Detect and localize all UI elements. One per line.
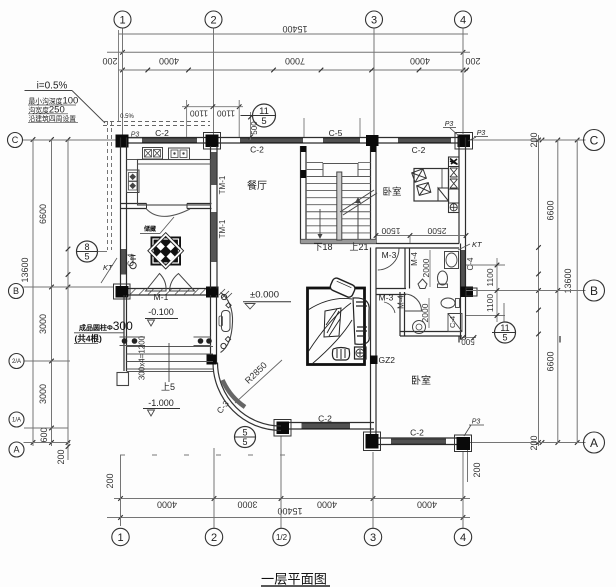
TM-1 door panel lower: [211, 212, 217, 262]
porch balustrade right: [194, 336, 212, 338]
right dim 200 bottom: [529, 435, 539, 450]
svg-text:13600: 13600: [563, 268, 573, 293]
grid bubble 1/2 bottom: [273, 528, 290, 545]
window C-2 bottom living: [302, 424, 351, 429]
grid bubble B right: [584, 280, 605, 301]
svg-text:1100: 1100: [485, 268, 495, 287]
bottom extension line grid2: [213, 448, 215, 528]
porch balustrade left: [120, 336, 146, 338]
bed quilt roll right: [353, 298, 369, 344]
top dim text 200 left: [102, 56, 117, 66]
svg-text:下18: 下18: [313, 242, 332, 252]
bottom dim text 4000 right: [417, 500, 437, 510]
svg-text:2500: 2500: [427, 226, 446, 236]
bedroom internal dim line: [376, 235, 466, 237]
svg-text:C-2: C-2: [410, 428, 424, 438]
M-3 door arc upper: [378, 249, 399, 271]
svg-text:4: 4: [460, 532, 466, 544]
svg-text:200: 200: [102, 56, 117, 66]
corridor wall at B: [376, 288, 406, 290]
column top-left: [116, 135, 129, 148]
curved wall R2850: [218, 363, 282, 427]
grid bubble C right: [584, 130, 605, 151]
entry double door M-1 leaves: [146, 274, 167, 292]
GZ2 column: [370, 356, 378, 365]
left dim text 13600: [20, 257, 30, 282]
svg-text:一层平面图: 一层平面图: [261, 572, 327, 587]
window C-5 stairs top: [323, 138, 360, 143]
svg-text:600: 600: [39, 427, 49, 442]
extension c5 window edges: [303, 118, 305, 137]
svg-text:A: A: [590, 436, 598, 450]
grid bubble 4 top: [455, 11, 472, 28]
stairs bottom wall: [301, 239, 377, 241]
dim text 1100 right: [217, 109, 236, 119]
bed corner fold: [438, 188, 449, 201]
svg-text:200: 200: [472, 462, 482, 477]
window C-2 dining top: [240, 138, 303, 143]
svg-text:300x4=1200: 300x4=1200: [138, 335, 147, 380]
stairs left wall: [300, 146, 302, 244]
svg-text:0.5%: 0.5%: [120, 114, 134, 120]
grid bubble 2/A left: [9, 354, 24, 369]
dim line 1100 1100 kitchen top: [182, 106, 243, 108]
bottom dim text 4000 mid: [317, 500, 337, 510]
svg-text:6600: 6600: [38, 204, 48, 224]
svg-text:上5: 上5: [161, 382, 175, 392]
stair down arrow: [319, 209, 321, 236]
stair treads: [306, 176, 371, 178]
grid bubble 1 top: [114, 11, 131, 28]
svg-text:2: 2: [210, 14, 216, 26]
svg-text:C-2: C-2: [412, 145, 426, 155]
top dim text 4000: [159, 56, 179, 66]
top dim text 4000 right: [410, 56, 430, 66]
svg-text:200: 200: [465, 56, 480, 66]
bed pillows crumpled: [412, 169, 427, 183]
grid bubble A left: [9, 442, 24, 457]
column B-kitchen-right: [206, 287, 219, 298]
grid line 1/A left connector: [24, 427, 68, 429]
svg-text:2000: 2000: [420, 303, 430, 322]
svg-text:M-4: M-4: [397, 295, 406, 309]
living corner hatch: [219, 289, 232, 300]
svg-text:GZ2: GZ2: [379, 355, 396, 365]
svg-text:±0.000: ±0.000: [250, 290, 279, 301]
grid bubble 1/A left: [9, 412, 24, 427]
top dimension line segments 4000-7000-4000: [118, 69, 468, 71]
stair center stringer: [337, 172, 342, 240]
svg-text:-0.100: -0.100: [148, 307, 174, 317]
svg-text:C: C: [590, 133, 599, 147]
detail bubble 11/5 right: [503, 303, 505, 322]
svg-text:1100: 1100: [190, 109, 209, 119]
svg-text:M-1: M-1: [154, 292, 169, 302]
left dim line segments: [51, 140, 53, 447]
center bedroom bed frame: [308, 288, 365, 365]
svg-text:5: 5: [242, 428, 247, 438]
left dim line 13600: [32, 140, 34, 447]
drain dashed lines top: [103, 121, 210, 123]
bottom wall living room: [287, 422, 374, 424]
svg-text:4000: 4000: [417, 500, 437, 510]
window C-4 bathroom right: [461, 250, 466, 289]
upper bathroom toilet: [438, 271, 448, 285]
foyer floor medallion diamond: [151, 237, 182, 266]
R2850 radius line: [235, 360, 282, 403]
grid line 1 vertical: [122, 28, 124, 137]
window C-2 kitchen top: [142, 138, 197, 143]
column B-right with bump: [461, 287, 474, 298]
bathroom right wall: [460, 244, 462, 340]
bathroom bottom wall: [400, 331, 462, 333]
right dim 200 top: [529, 132, 539, 147]
left dim line inner: [67, 140, 69, 461]
lower bathroom shower corner: [448, 314, 462, 332]
svg-text:2000: 2000: [421, 258, 431, 277]
detail bubble 8/5 left: [77, 241, 98, 262]
grid bubble B left: [9, 284, 24, 299]
left dim text 6600: [38, 204, 48, 224]
svg-text:B: B: [13, 286, 19, 296]
TM-1 label lower: [218, 219, 227, 238]
decorative niche by porch wall: [221, 293, 233, 353]
svg-text:4: 4: [460, 14, 466, 26]
lower bathroom dim 2000: [428, 298, 430, 328]
dim text 1100 left: [190, 109, 209, 119]
svg-text:1/A: 1/A: [12, 418, 21, 424]
kitchen counter edge: [127, 159, 211, 161]
svg-text:6600: 6600: [546, 200, 556, 220]
upper bathroom washbasin: [445, 252, 459, 269]
svg-text:卧室: 卧室: [411, 374, 431, 387]
svg-text:1: 1: [119, 14, 125, 26]
stair break line: [340, 190, 374, 212]
svg-text:3000: 3000: [38, 314, 48, 334]
bedroom bottom wall / corridor top: [376, 243, 459, 245]
stair upper landing rail: [323, 164, 358, 177]
svg-text:M-3: M-3: [382, 250, 397, 260]
grid bubble 3 bottom: [364, 528, 381, 545]
bed fold curves: [308, 298, 352, 364]
svg-text:4000: 4000: [410, 56, 430, 66]
entry wall at grid B: [116, 288, 219, 290]
bottom extension line grid4: [462, 452, 464, 528]
svg-text:3: 3: [370, 532, 376, 544]
svg-text:5: 5: [84, 252, 89, 262]
kitchen-foyer wall: [121, 203, 147, 205]
detail bubble 11/5 top: [241, 115, 253, 117]
svg-text:C-2: C-2: [155, 128, 169, 138]
left dim 200 bottom: [56, 449, 66, 464]
porch right wall: [210, 295, 212, 364]
grid line C left connector: [23, 139, 119, 141]
svg-text:C-2: C-2: [318, 414, 332, 424]
grid bubble 1 bottom: [112, 528, 129, 545]
svg-text:卧室: 卧室: [382, 186, 401, 198]
column bottom living-left boxed: [277, 422, 290, 435]
svg-text:C-4: C-4: [127, 253, 136, 266]
bottom extension line grid half: [280, 436, 282, 528]
bottom extension line grid3: [372, 452, 374, 528]
svg-text:C-2: C-2: [250, 145, 264, 155]
grid line C right connector: [470, 139, 586, 141]
svg-text:P3: P3: [472, 419, 481, 426]
grid line A right connector: [470, 442, 586, 444]
svg-text:-1.000: -1.000: [148, 398, 174, 408]
R2850 label: [243, 360, 269, 386]
M-4 label lower: [397, 295, 406, 309]
svg-text:P3: P3: [477, 130, 486, 137]
bottom dim text 4000: [157, 500, 177, 510]
svg-text:500: 500: [461, 337, 475, 346]
svg-text:M-4: M-4: [410, 252, 419, 266]
left dim text 3000 upper: [38, 314, 48, 334]
bathroom left wall lower: [399, 292, 401, 336]
grid line 3 vertical: [373, 28, 375, 136]
right dim line segments 6600/6600: [557, 140, 559, 444]
grid bubble C left: [8, 133, 23, 148]
grid line A left connector: [24, 442, 71, 444]
bed pillow top: [329, 277, 356, 299]
svg-text:上21: 上21: [349, 242, 368, 252]
C-4 label shower: [448, 316, 457, 328]
lower bathroom door M-4 arc: [405, 294, 422, 311]
bottom dim 200 right vertical: [472, 462, 482, 477]
dim line 1100/1100: [496, 258, 498, 322]
steps dim 300x4=1200: [138, 335, 147, 380]
dim 500 left small: [119, 365, 121, 367]
drain dashed lines left: [107, 121, 109, 250]
column top stairs-right: [366, 135, 379, 146]
svg-text:P3: P3: [445, 121, 454, 128]
grid line 4 vertical: [462, 28, 464, 134]
up 5 leader: [168, 343, 170, 382]
porch steps: [127, 346, 214, 348]
right dim line 13600: [576, 140, 578, 444]
svg-text:M-3: M-3: [379, 293, 394, 303]
right dim line openings: [538, 135, 540, 446]
bottom dim line 15400: [107, 517, 470, 519]
svg-text:i=0.5%: i=0.5%: [37, 81, 68, 92]
grid bubble 2 bottom: [205, 528, 222, 545]
bathroom left wall upper: [404, 248, 406, 289]
svg-text:200: 200: [56, 449, 66, 464]
svg-text:2/A: 2/A: [12, 359, 21, 365]
left dim text 3000 lower: [38, 384, 48, 404]
svg-text:3000: 3000: [38, 384, 48, 404]
grid line B right connector: [505, 290, 586, 292]
svg-text:3000: 3000: [237, 500, 257, 510]
detail bubble 5/5: [235, 427, 256, 448]
dim 2500: [427, 226, 446, 236]
window C-2 bottom bedroom: [391, 439, 446, 444]
svg-text:15400: 15400: [282, 24, 307, 34]
C-4 label right outside: [466, 257, 475, 270]
svg-text:1100: 1100: [485, 294, 495, 313]
svg-text:5: 5: [242, 437, 247, 447]
right dim text 6600 lower: [546, 351, 556, 371]
bottom dim text 3000: [237, 500, 257, 510]
grid line B left connector: [24, 286, 115, 288]
kitchen sink unit left: [143, 148, 163, 160]
svg-text:13600: 13600: [20, 257, 30, 282]
porch right column: [207, 355, 217, 365]
dim 1500: [381, 226, 400, 236]
upper bathroom floor drain: [418, 279, 427, 289]
svg-text:3: 3: [371, 14, 377, 26]
column B-left: [116, 286, 129, 298]
svg-text:1500: 1500: [381, 226, 400, 236]
column top-right corner: [458, 135, 471, 148]
lower bathroom toilet: [441, 298, 455, 308]
svg-text:TM-1: TM-1: [218, 219, 227, 238]
column top kitchen-right: [206, 135, 219, 148]
terrace dashed line: [120, 454, 312, 456]
grid bubble 3 top: [366, 11, 383, 28]
svg-text:储藏: 储藏: [143, 225, 156, 233]
top dim text 200 right: [465, 56, 480, 66]
svg-text:5: 5: [261, 116, 266, 127]
top exterior wall: [118, 137, 468, 139]
svg-text:4000: 4000: [317, 500, 337, 510]
bed blanket hatched: [324, 308, 341, 337]
top dim text 7000: [285, 56, 305, 66]
stairs-bedroom wall: [370, 146, 372, 244]
right exterior wall bedroom: [458, 138, 460, 244]
M-4 label upper: [410, 252, 419, 266]
column bottom bedroom-left: [366, 434, 379, 449]
window C-2 bedroom top: [398, 138, 451, 143]
bed nightstand: [355, 347, 367, 359]
svg-text:B: B: [590, 284, 598, 298]
svg-text:TM-1: TM-1: [218, 175, 227, 194]
svg-text:P3: P3: [131, 132, 140, 139]
bottom extension line grid1: [120, 455, 122, 526]
window C-4 left wall: [121, 249, 127, 275]
lower bathroom washbasin: [413, 321, 426, 334]
dim 500 vertical: [250, 112, 252, 140]
svg-text:7000: 7000: [285, 56, 305, 66]
kitchen-dining wall TM-1: [210, 146, 212, 289]
wardrobe strip: [449, 157, 460, 213]
svg-text:C: C: [12, 135, 19, 145]
window C-3 on curve: [223, 380, 246, 407]
column bottom-right corner: [457, 437, 471, 450]
grid bubble A right: [584, 432, 605, 453]
svg-text:餐厅: 餐厅: [247, 179, 267, 192]
TM-1 door panel upper: [211, 152, 217, 185]
top dimension line 15400: [118, 33, 468, 35]
bedroom-living wall: [370, 248, 372, 435]
bed stool: [332, 348, 349, 361]
svg-text:1/2: 1/2: [276, 533, 288, 542]
svg-text:8: 8: [84, 242, 89, 252]
svg-text:11: 11: [500, 323, 509, 333]
right dim text 13600: [563, 268, 573, 293]
svg-text:C-4: C-4: [448, 316, 457, 328]
building edge extension top-left: [118, 30, 120, 122]
svg-text:4000: 4000: [157, 500, 177, 510]
bottom extension building right edge: [467, 450, 469, 482]
svg-text:1: 1: [117, 532, 123, 544]
wall vase symbol: [130, 262, 136, 268]
right wall below bathroom: [458, 336, 460, 343]
svg-text:(共4根): (共4根): [75, 334, 103, 344]
svg-text:沿建筑四周设置: 沿建筑四周设置: [29, 114, 77, 123]
porch pillar base: [117, 373, 129, 386]
grid line 2 vertical: [213, 28, 215, 137]
kitchen island counter: [138, 160, 211, 206]
svg-text:KT: KT: [472, 240, 483, 249]
top dimension line middle: [107, 51, 470, 53]
C-3 label on curve: [214, 398, 231, 415]
foyer door arc: [146, 209, 190, 217]
svg-text:C-5: C-5: [329, 128, 343, 138]
grid bubble 2 top: [205, 11, 222, 28]
svg-text:1100: 1100: [217, 109, 236, 119]
right dim text 6600 upper: [546, 200, 556, 220]
dim 500 bathroom: [461, 337, 476, 339]
svg-text:200: 200: [105, 473, 115, 488]
grid line 2/A left connector: [24, 360, 70, 362]
porch left wall: [123, 295, 125, 371]
svg-text:6600: 6600: [546, 351, 556, 371]
left exterior wall kitchen: [120, 138, 122, 297]
svg-text:C-4: C-4: [466, 257, 475, 270]
bottom dim line segments 4000-3000-4000-4000: [114, 498, 470, 500]
svg-text:A: A: [13, 445, 19, 455]
svg-text:2: 2: [211, 532, 217, 544]
extension lines 1100 dims: [466, 264, 505, 266]
TM-1 label upper: [218, 175, 227, 194]
bottom dim text 15400: [277, 506, 302, 516]
bottom dim 200 left vertical: [105, 473, 115, 488]
stair up arrow: [357, 200, 359, 239]
svg-text:5: 5: [502, 333, 507, 343]
bedroom bed top-right: [414, 169, 449, 202]
kitchen sink unit right: [169, 148, 190, 160]
C-4 label left wall: [127, 253, 136, 266]
kitchen stove: [127, 170, 140, 193]
upper bathroom dim 2000: [429, 250, 431, 287]
bottom wall bedroom: [374, 437, 459, 439]
svg-text:4000: 4000: [159, 56, 179, 66]
left dim text 600: [39, 427, 49, 442]
grid bubble 4 bottom: [454, 528, 471, 545]
